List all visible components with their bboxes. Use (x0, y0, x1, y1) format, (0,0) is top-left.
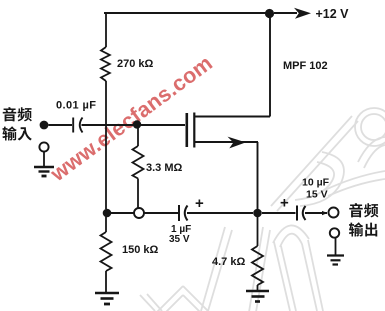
capacitor C3 10 µF (262, 195, 328, 221)
terminal: open node on bias line (134, 208, 144, 218)
label 音频输入 (2, 107, 31, 140)
label 1 µF 35 V (169, 224, 191, 245)
wire: source down to node (257, 142, 259, 213)
label 音频输出 (349, 203, 378, 236)
ground (output) (327, 238, 344, 265)
svg-text:270 kΩ: 270 kΩ (117, 58, 154, 70)
resistor R3 150 kΩ (101, 217, 112, 292)
junction: rail-drain node (265, 9, 274, 18)
wire: drain to rail (269, 13, 271, 117)
output terminal (329, 208, 339, 218)
junction: source node (253, 209, 262, 218)
svg-text:+: + (280, 195, 289, 212)
svg-text:3.3 MΩ: 3.3 MΩ (146, 162, 183, 174)
wire: bias line to C2 (144, 212, 178, 214)
resistor R4 4.7 kΩ (252, 217, 263, 290)
resistor R1 270 kΩ (101, 13, 110, 209)
transistor Q1 MPF102 JFET (187, 113, 270, 149)
wire: bias line (111, 212, 134, 214)
capacitor C1 0.01 µF (48, 118, 185, 133)
svg-text:4.7 kΩ: 4.7 kΩ (212, 256, 245, 268)
svg-text:0.01 µF: 0.01 µF (56, 100, 96, 112)
svg-text:150 kΩ: 150 kΩ (122, 244, 159, 256)
svg-text:MPF 102: MPF 102 (283, 60, 328, 72)
svg-text:+12 V: +12 V (316, 7, 350, 21)
+12V supply arrow (274, 8, 311, 19)
input jack ground terminal (39, 142, 48, 151)
wire: +12V top rail (104, 12, 270, 14)
capacitor C2 1 µF (179, 195, 253, 221)
resistor R2 3.3 MΩ (133, 128, 144, 208)
label 10 µF 15 V (302, 177, 330, 201)
ground (under 150k) (95, 293, 119, 304)
ground (under 4.7k) (246, 291, 269, 302)
svg-text:15 V: 15 V (306, 189, 328, 201)
node: audio input terminal (40, 121, 49, 130)
junction: bias divider node (103, 209, 112, 218)
junction: gate node (133, 120, 141, 128)
svg-text:+: + (195, 195, 204, 212)
output jack ground terminal (330, 228, 339, 237)
ground (input) (34, 152, 54, 176)
svg-text:35 V: 35 V (169, 234, 190, 245)
svg-text:10 µF: 10 µF (302, 177, 330, 189)
